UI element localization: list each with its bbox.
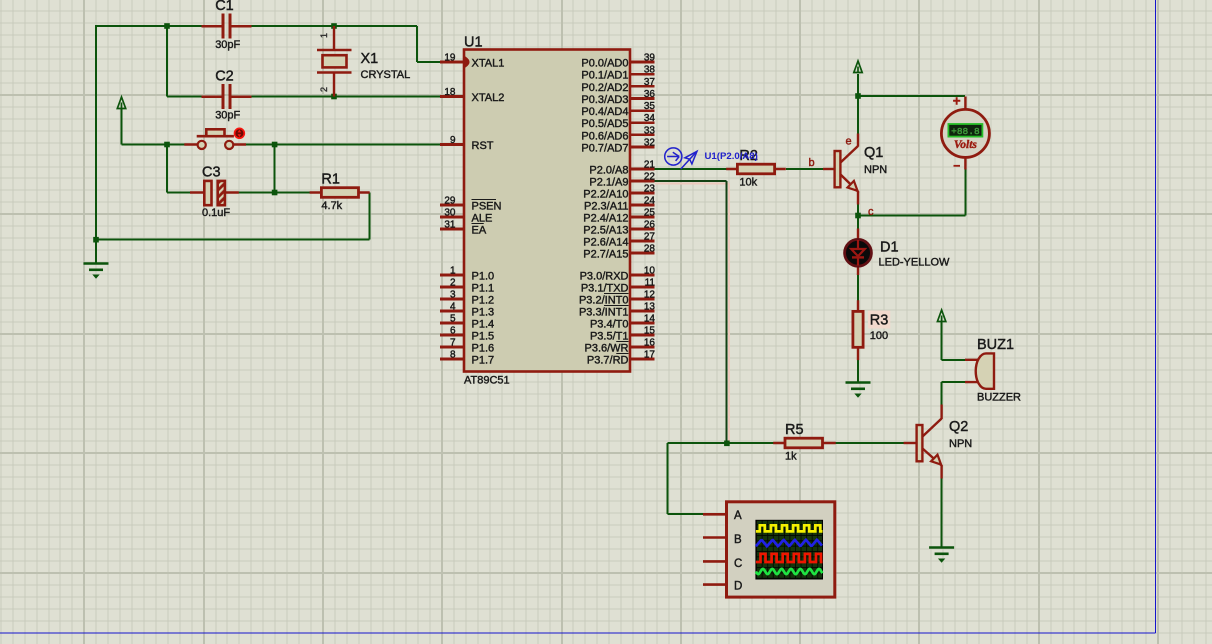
capacitor C3 0.1uF [190, 165, 239, 220]
svg-text:P1.4: P1.4 [472, 319, 495, 331]
pin 35 P0.4/AD4 [581, 101, 655, 118]
svg-text:+: + [953, 94, 961, 109]
svg-text:D: D [734, 581, 742, 593]
svg-text:29: 29 [444, 196, 456, 207]
svg-text:C: C [734, 558, 742, 570]
svg-text:RST: RST [472, 140, 494, 152]
pin 13 P3.3/INT1 [579, 302, 655, 319]
svg-text:P0.6/AD6: P0.6/AD6 [581, 130, 628, 142]
wire: button to RST junction vertical [274, 145, 276, 193]
svg-text:P2.2/A10: P2.2/A10 [583, 189, 628, 201]
svg-text:5: 5 [450, 314, 456, 325]
pin 36 P0.3/AD3 [581, 89, 655, 106]
scope trace B blue wave [756, 540, 822, 547]
svg-text:A: A [734, 510, 742, 522]
wire: branch down to scope channel A [667, 443, 703, 514]
capacitor C2 [202, 68, 252, 121]
pin 33 P0.6/AD6 [581, 125, 655, 142]
svg-text:P3.6/WR: P3.6/WR [584, 343, 628, 355]
svg-text:X1: X1 [361, 51, 379, 67]
transistor Q1 NPN [809, 134, 888, 219]
svg-text:30: 30 [444, 208, 456, 219]
svg-text:P1.3: P1.3 [472, 307, 495, 319]
svg-text:32: 32 [644, 137, 656, 148]
scope trace A yellow square wave [756, 525, 823, 531]
resistor R2 [726, 148, 786, 189]
svg-text:6: 6 [450, 326, 456, 337]
pin 30 ALE [440, 208, 492, 225]
svg-text:P3.2/INT0: P3.2/INT0 [579, 295, 629, 307]
svg-text:CRYSTAL: CRYSTAL [361, 69, 411, 81]
svg-text:NPN: NPN [864, 164, 887, 176]
svg-text:34: 34 [644, 113, 656, 124]
power symbol VCC Q1 [854, 61, 862, 73]
svg-text:7: 7 [450, 338, 456, 349]
svg-text:1: 1 [319, 33, 329, 38]
svg-text:U1: U1 [464, 35, 483, 51]
svg-text:P2.7/A15: P2.7/A15 [583, 249, 628, 261]
svg-text:4: 4 [450, 302, 456, 313]
wire: C2/XTAL2 row y=96.5 [167, 26, 442, 97]
pin 16 P3.6/WR [584, 338, 655, 355]
svg-text:100: 100 [870, 330, 888, 342]
svg-text:EA: EA [472, 225, 487, 237]
svg-text:+88.8: +88.8 [951, 126, 980, 137]
svg-text:PSEN: PSEN [472, 201, 502, 213]
pin 5 P1.4 [440, 314, 494, 331]
pin 24 P2.3/A11 [584, 196, 655, 213]
svg-text:17: 17 [644, 350, 656, 361]
LED D1 LED-YELLOW [845, 229, 950, 276]
wire: buzzer bottom to Q2 collector [942, 382, 965, 405]
pin 11 P3.1/TXD [581, 278, 656, 295]
scope trace D green sine wave [756, 569, 823, 574]
svg-text:P2.5/A13: P2.5/A13 [583, 225, 628, 237]
node crystal pin2 junction [331, 94, 337, 100]
svg-text:P0.7/AD7: P0.7/AD7 [581, 142, 628, 154]
svg-text:28: 28 [644, 244, 656, 255]
svg-text:15: 15 [644, 326, 656, 337]
pin 23 P2.2/A10 [583, 184, 655, 201]
svg-text:C3: C3 [202, 165, 221, 181]
svg-text:P0.4/AD4: P0.4/AD4 [581, 106, 628, 118]
svg-text:C1: C1 [215, 0, 234, 14]
pin 15 P3.5/T1 [590, 326, 655, 343]
svg-text:XTAL2: XTAL2 [472, 92, 505, 104]
pin 34 P0.5/AD5 [581, 113, 655, 130]
wire: pin22 P2.1 down to R5 row (selected, pink highlight) [655, 184, 729, 444]
svg-text:9: 9 [450, 135, 456, 146]
pin 3 P1.2 [440, 290, 494, 307]
pin 10 P3.0/RXD [580, 266, 656, 283]
pin 25 P2.4/A12 [583, 208, 655, 225]
svg-text:1k: 1k [785, 451, 797, 463]
svg-text:D1: D1 [880, 240, 899, 256]
svg-text:30pF: 30pF [215, 109, 240, 121]
svg-text:16: 16 [644, 338, 656, 349]
pin 31 EA [440, 220, 487, 237]
wire: Q1 emitter up to supply rail [857, 96, 859, 134]
pin 14 P3.4/T0 [590, 314, 655, 331]
svg-text:19: 19 [444, 53, 456, 64]
wire: R5 row y=443 [667, 442, 904, 444]
svg-text:R3: R3 [870, 313, 889, 329]
svg-text:P0.2/AD2: P0.2/AD2 [581, 82, 628, 94]
node R5/scope junction [724, 441, 730, 447]
svg-text:XTAL1: XTAL1 [472, 58, 505, 70]
svg-text:P0.1/AD1: P0.1/AD1 [581, 70, 628, 82]
svg-text:22: 22 [644, 172, 656, 183]
wire: pin21 P2.0 row to R2 [654, 168, 727, 170]
pin 19 XTAL1 [440, 53, 504, 70]
buzzer BUZ1 [965, 337, 1021, 404]
svg-text:P3.4/T0: P3.4/T0 [590, 319, 629, 331]
wire: top rail y=26 from left vertical to XTAL1 [96, 26, 442, 62]
svg-text:R1: R1 [321, 172, 340, 188]
svg-text:1: 1 [450, 266, 456, 277]
svg-text:10k: 10k [739, 177, 757, 189]
svg-text:C2: C2 [215, 68, 234, 84]
crystal X1 [317, 26, 410, 97]
pin 29 PSEN [440, 196, 502, 213]
pin 26 P2.5/A13 [583, 220, 655, 237]
pin 18 XTAL2 [440, 87, 504, 104]
svg-text:11: 11 [645, 278, 656, 289]
svg-text:2: 2 [319, 87, 329, 92]
svg-text:14: 14 [644, 314, 656, 325]
svg-text:ALE: ALE [472, 213, 493, 225]
svg-text:25: 25 [644, 208, 656, 219]
node VCC rail Q1 junction [855, 93, 861, 99]
XTAL1 clock input marker [466, 58, 469, 67]
node C3/R1 junction [272, 190, 278, 196]
svg-text:U1(P2.0/A8): U1(P2.0/A8) [705, 151, 758, 162]
svg-text:33: 33 [644, 125, 656, 136]
pin 6 P1.5 [440, 326, 494, 343]
node reset button left junction [164, 142, 170, 148]
node reset button right junction [272, 142, 278, 148]
wire: C3/R1 row y=192.5 [167, 145, 310, 193]
pin 12 P3.2/INT0 [579, 290, 655, 307]
svg-text:8: 8 [450, 350, 456, 361]
wire: RST row y=144.5 with button gap [122, 109, 443, 145]
svg-text:P3.7/RD: P3.7/RD [587, 355, 629, 367]
button red actuator indicator [235, 128, 245, 138]
pin 7 P1.6 [440, 338, 494, 355]
svg-text:36: 36 [644, 89, 656, 100]
scope trace C red square wave [756, 554, 823, 562]
pin 28 P2.7/A15 [583, 244, 655, 261]
svg-text:c: c [868, 206, 874, 218]
svg-text:26: 26 [644, 220, 656, 231]
svg-text:P1.1: P1.1 [472, 283, 495, 295]
node crystal pin1 junction [331, 23, 337, 29]
svg-text:R5: R5 [785, 422, 804, 438]
pin 17 P3.7/RD [587, 350, 656, 367]
svg-text:P3.5/T1: P3.5/T1 [590, 331, 629, 343]
pin 32 P0.7/AD7 [581, 137, 655, 154]
svg-text:P1.2: P1.2 [472, 295, 495, 307]
svg-text:38: 38 [644, 65, 656, 76]
svg-text:30pF: 30pF [215, 39, 240, 51]
pin 4 P1.3 [440, 302, 494, 319]
svg-text:P1.0: P1.0 [472, 271, 495, 283]
svg-text:27: 27 [644, 232, 656, 243]
svg-text:10: 10 [644, 266, 656, 277]
svg-text:NPN: NPN [949, 438, 972, 450]
power symbol VCC left [117, 97, 125, 109]
svg-text:P1.6: P1.6 [472, 343, 495, 355]
svg-text:39: 39 [644, 53, 656, 64]
svg-text:BUZZER: BUZZER [977, 392, 1021, 404]
pin 21 P2.0/A8 [589, 160, 655, 177]
svg-text:LED-YELLOW: LED-YELLOW [879, 257, 951, 269]
svg-text:P2.1/A9: P2.1/A9 [589, 177, 628, 189]
capacitor C1 [202, 0, 252, 51]
svg-text:B: B [734, 534, 742, 546]
node C1 top rail junction [164, 23, 170, 29]
svg-text:23: 23 [644, 184, 656, 195]
svg-text:AT89C51: AT89C51 [464, 375, 510, 387]
resistor R1 [310, 172, 370, 213]
wire: LED to R3 [857, 275, 859, 302]
svg-text:13: 13 [644, 302, 656, 313]
pin 22 P2.1/A9 [589, 172, 655, 189]
wire: Q1 collector down to junction, voltmeter - return [858, 169, 965, 230]
svg-text:24: 24 [644, 196, 656, 207]
svg-text:Volts: Volts [954, 139, 978, 151]
svg-text:P2.0/A8: P2.0/A8 [589, 165, 628, 177]
pin 39 P0.0/AD0 [581, 53, 655, 70]
svg-text:18: 18 [444, 87, 456, 98]
svg-text:P2.4/A12: P2.4/A12 [583, 213, 628, 225]
svg-text:Q2: Q2 [949, 419, 968, 435]
wire: left vertical x=96 [95, 25, 97, 240]
svg-text:4.7k: 4.7k [321, 200, 342, 212]
oscilloscope body [703, 502, 835, 597]
pin 38 P0.1/AD1 [581, 65, 655, 82]
svg-text:P0.5/AD5: P0.5/AD5 [581, 118, 628, 130]
svg-text:3: 3 [450, 290, 456, 301]
svg-text:P0.3/AD3: P0.3/AD3 [581, 94, 628, 106]
voltage probe marker on P2.0 net [665, 148, 697, 169]
ground left [84, 264, 109, 279]
svg-text:e: e [846, 136, 852, 148]
svg-text:0.1uF: 0.1uF [202, 207, 230, 219]
svg-text:P1.5: P1.5 [472, 331, 495, 343]
svg-text:P3.1/TXD: P3.1/TXD [581, 283, 629, 295]
pin 27 P2.6/A14 [583, 232, 655, 249]
svg-text:2: 2 [450, 278, 456, 289]
pin 1 P1.0 [440, 266, 494, 283]
svg-text:b: b [809, 157, 815, 169]
wire: Q2 emitter to ground [941, 478, 943, 548]
voltmeter [941, 94, 989, 170]
svg-text:P0.0/AD0: P0.0/AD0 [581, 58, 628, 70]
wire: R3 to ground [857, 360, 859, 383]
push button (reset) [184, 129, 246, 149]
svg-text:12: 12 [644, 290, 656, 301]
svg-text:BUZ1: BUZ1 [977, 337, 1014, 353]
node Q1 collector junction [855, 213, 861, 219]
pin 2 P1.1 [440, 278, 494, 295]
svg-text:P1.7: P1.7 [472, 355, 495, 367]
svg-text:P2.6/A14: P2.6/A14 [583, 237, 628, 249]
pin 9 RST [440, 135, 494, 152]
node ground rail junction [93, 237, 99, 243]
svg-text:37: 37 [644, 77, 656, 88]
wire: buzzer supply arrow down [942, 322, 965, 360]
ground under Q2 [929, 548, 954, 563]
transistor Q2 NPN [904, 405, 973, 479]
pin 37 P0.2/AD2 [581, 77, 655, 94]
op chip U1 AT89C51 body [464, 50, 630, 372]
svg-text:Q1: Q1 [864, 145, 883, 161]
wire: R2 to Q1 base [786, 168, 823, 170]
svg-text:31: 31 [444, 220, 456, 231]
svg-text:P2.3/A11: P2.3/A11 [584, 201, 628, 213]
power symbol VCC buzzer [937, 310, 945, 322]
svg-text:P3.3/INT1: P3.3/INT1 [579, 307, 629, 319]
wire: supply rail to voltmeter + [858, 74, 965, 96]
svg-text:P3.0/RXD: P3.0/RXD [580, 271, 629, 283]
pin 8 P1.7 [440, 350, 494, 367]
wire: R1 output down and bottom rail to ground [96, 193, 370, 264]
resistor R5 [773, 422, 836, 463]
svg-text:35: 35 [644, 101, 656, 112]
oscilloscope screen [756, 520, 823, 579]
resistor R3 (vertical) with pink highlight label [853, 300, 890, 360]
ground under R3 [846, 383, 871, 398]
svg-text:21: 21 [644, 160, 656, 171]
